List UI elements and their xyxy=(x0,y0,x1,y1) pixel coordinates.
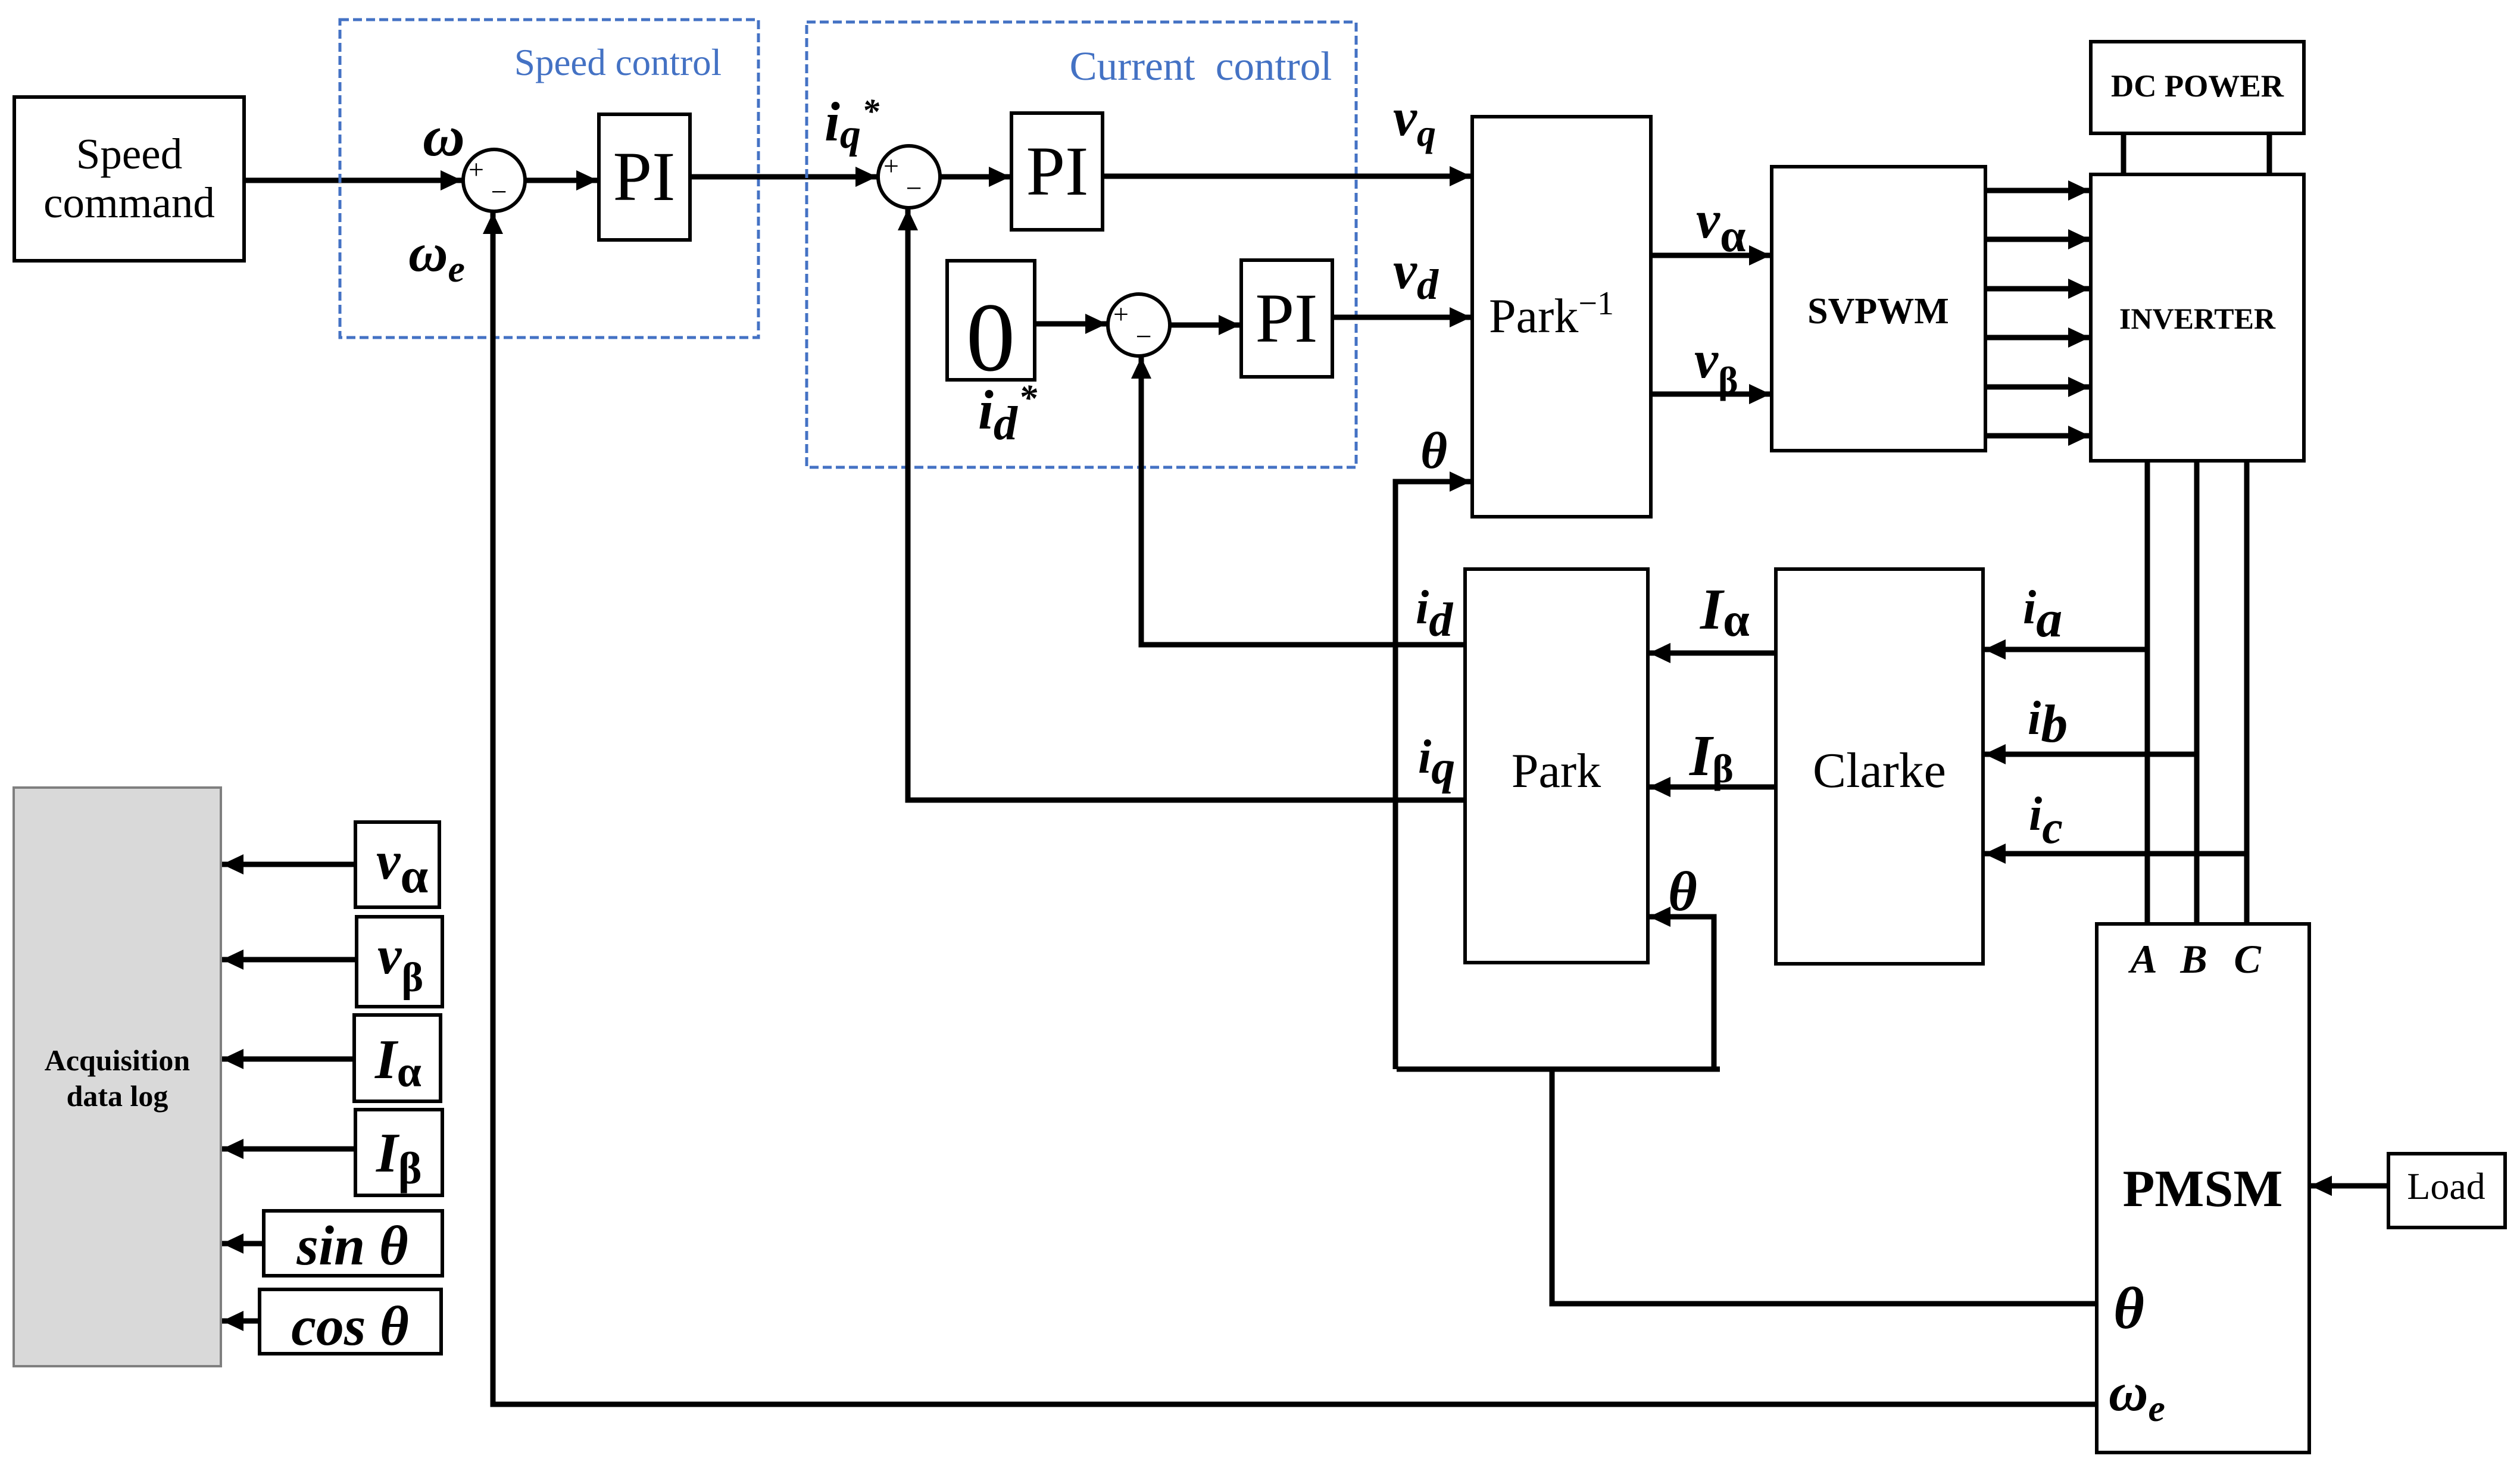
svg-text:SVPWM: SVPWM xyxy=(1807,291,1949,332)
svg-text:B: B xyxy=(2179,936,2207,982)
svg-text:cos θ: cos θ xyxy=(291,1295,409,1357)
wire Ialpha to acquisition xyxy=(222,1057,354,1062)
svg-text:Speed: Speed xyxy=(76,130,182,178)
Ialpha log block xyxy=(354,1015,441,1101)
svg-text:ω: ω xyxy=(423,104,465,168)
svg-text:sin θ: sin θ xyxy=(296,1215,408,1277)
svg-text:Load: Load xyxy=(2407,1165,2485,1207)
svg-text:Park: Park xyxy=(1512,744,1601,798)
wire S1 to PI1 xyxy=(525,178,598,183)
Park block xyxy=(1465,569,1648,963)
wire sin theta to acquisition xyxy=(222,1241,264,1247)
Ibeta log block xyxy=(355,1110,442,1195)
wire vd PI3 to Park inverse xyxy=(1332,315,1471,320)
wire ia tap to Clarke xyxy=(1984,647,2147,652)
svg-text:data log: data log xyxy=(67,1079,168,1113)
vbeta log block xyxy=(357,917,442,1007)
wire ic tap to Clarke xyxy=(1984,851,2247,857)
svg-text:DC POWER: DC POWER xyxy=(2111,69,2284,104)
wire id feedback Park to S3 xyxy=(1141,357,1465,645)
wire ib tap to Clarke xyxy=(1984,752,2197,757)
wire speed command to summing junction S1 xyxy=(244,178,462,183)
svg-text:−: − xyxy=(905,173,922,204)
zero reference block xyxy=(947,261,1035,392)
svg-text:command: command xyxy=(43,179,215,227)
wire cos theta to acquisition xyxy=(222,1319,260,1324)
wire vbeta to acquisition xyxy=(222,957,357,963)
valpha log block xyxy=(355,822,439,907)
PI controller PI1 (speed) xyxy=(599,114,690,240)
summing junction S1 xyxy=(463,149,525,211)
DC POWER block xyxy=(2091,42,2304,133)
wire Ialpha Clarke to Park xyxy=(1649,651,1776,656)
wire S2 to PI2 xyxy=(940,174,1010,180)
Acquisition data log block xyxy=(14,788,221,1366)
cos theta log block xyxy=(260,1289,441,1357)
SVPWM block xyxy=(1772,167,1985,451)
wire valpha Park inverse to SVPWM xyxy=(1651,253,1770,258)
Clarke block xyxy=(1776,569,1983,964)
wire theta distribution bus xyxy=(1397,1067,1720,1072)
wire theta into Park xyxy=(1649,917,1714,1069)
svg-text:A: A xyxy=(2128,936,2157,982)
wire iq feedback Park to S2 xyxy=(908,209,1465,800)
svg-text:θ: θ xyxy=(1420,421,1447,479)
svg-text:C: C xyxy=(2234,936,2261,982)
wire Ibeta to acquisition xyxy=(222,1147,355,1152)
PI controller PI2 (q axis) xyxy=(1011,113,1103,230)
svg-text:θ: θ xyxy=(2113,1275,2144,1341)
svg-text:PMSM: PMSM xyxy=(2123,1160,2283,1218)
svg-text:INVERTER: INVERTER xyxy=(2119,302,2276,335)
Load block xyxy=(2388,1154,2505,1228)
Current control dashed region xyxy=(807,22,1356,467)
wires DC POWER to INVERTER xyxy=(2124,133,2269,174)
svg-text:ib: ib xyxy=(2028,692,2068,754)
sin theta log block xyxy=(264,1211,442,1277)
svg-text:Current control: Current control xyxy=(1070,43,1332,89)
svg-text:PI: PI xyxy=(1026,132,1089,210)
INVERTER block xyxy=(2091,174,2304,461)
wire vq PI2 to Park inverse xyxy=(1103,174,1471,179)
wire Ibeta Clarke to Park xyxy=(1649,785,1776,790)
svg-text:+: + xyxy=(1113,299,1129,329)
three phase wires INVERTER to PMSM xyxy=(2147,461,2247,924)
wire vbeta Park inverse to SVPWM xyxy=(1651,392,1770,397)
wire Load to PMSM xyxy=(2310,1183,2390,1189)
svg-text:Speed control: Speed control xyxy=(514,42,722,83)
wire S3 to PI3 xyxy=(1170,323,1240,328)
svg-text:−: − xyxy=(1135,321,1151,352)
svg-text:PI: PI xyxy=(613,138,676,215)
wire omega_e feedback PMSM to S1 xyxy=(493,213,2097,1404)
svg-text:Acquisition: Acquisition xyxy=(45,1044,191,1077)
svg-text:−: − xyxy=(491,176,507,208)
summing junction S3 xyxy=(1108,294,1170,356)
svg-text:+: + xyxy=(469,154,484,185)
wire 0 to summing junction S3 xyxy=(1035,321,1107,327)
svg-text:PI: PI xyxy=(1256,279,1318,357)
wire PI1 to summing junction S2 xyxy=(690,174,877,180)
Speed control dashed region xyxy=(340,20,758,338)
Speed command block xyxy=(14,97,244,261)
svg-text:+: + xyxy=(883,151,899,181)
wire theta into Park inverse xyxy=(1395,482,1471,1069)
wire valpha to acquisition xyxy=(222,862,355,867)
PMSM block xyxy=(2097,924,2309,1453)
six PWM gate wires SVPWM to INVERTER xyxy=(1985,190,2090,436)
summing junction S2 xyxy=(878,146,940,208)
svg-text:Clarke: Clarke xyxy=(1813,743,1946,798)
PI controller PI3 (d axis) xyxy=(1241,260,1332,377)
svg-text:θ: θ xyxy=(1668,861,1697,923)
Park inverse block xyxy=(1472,117,1651,517)
wire theta from PMSM xyxy=(1552,1069,2097,1304)
svg-text:0: 0 xyxy=(966,283,1016,392)
